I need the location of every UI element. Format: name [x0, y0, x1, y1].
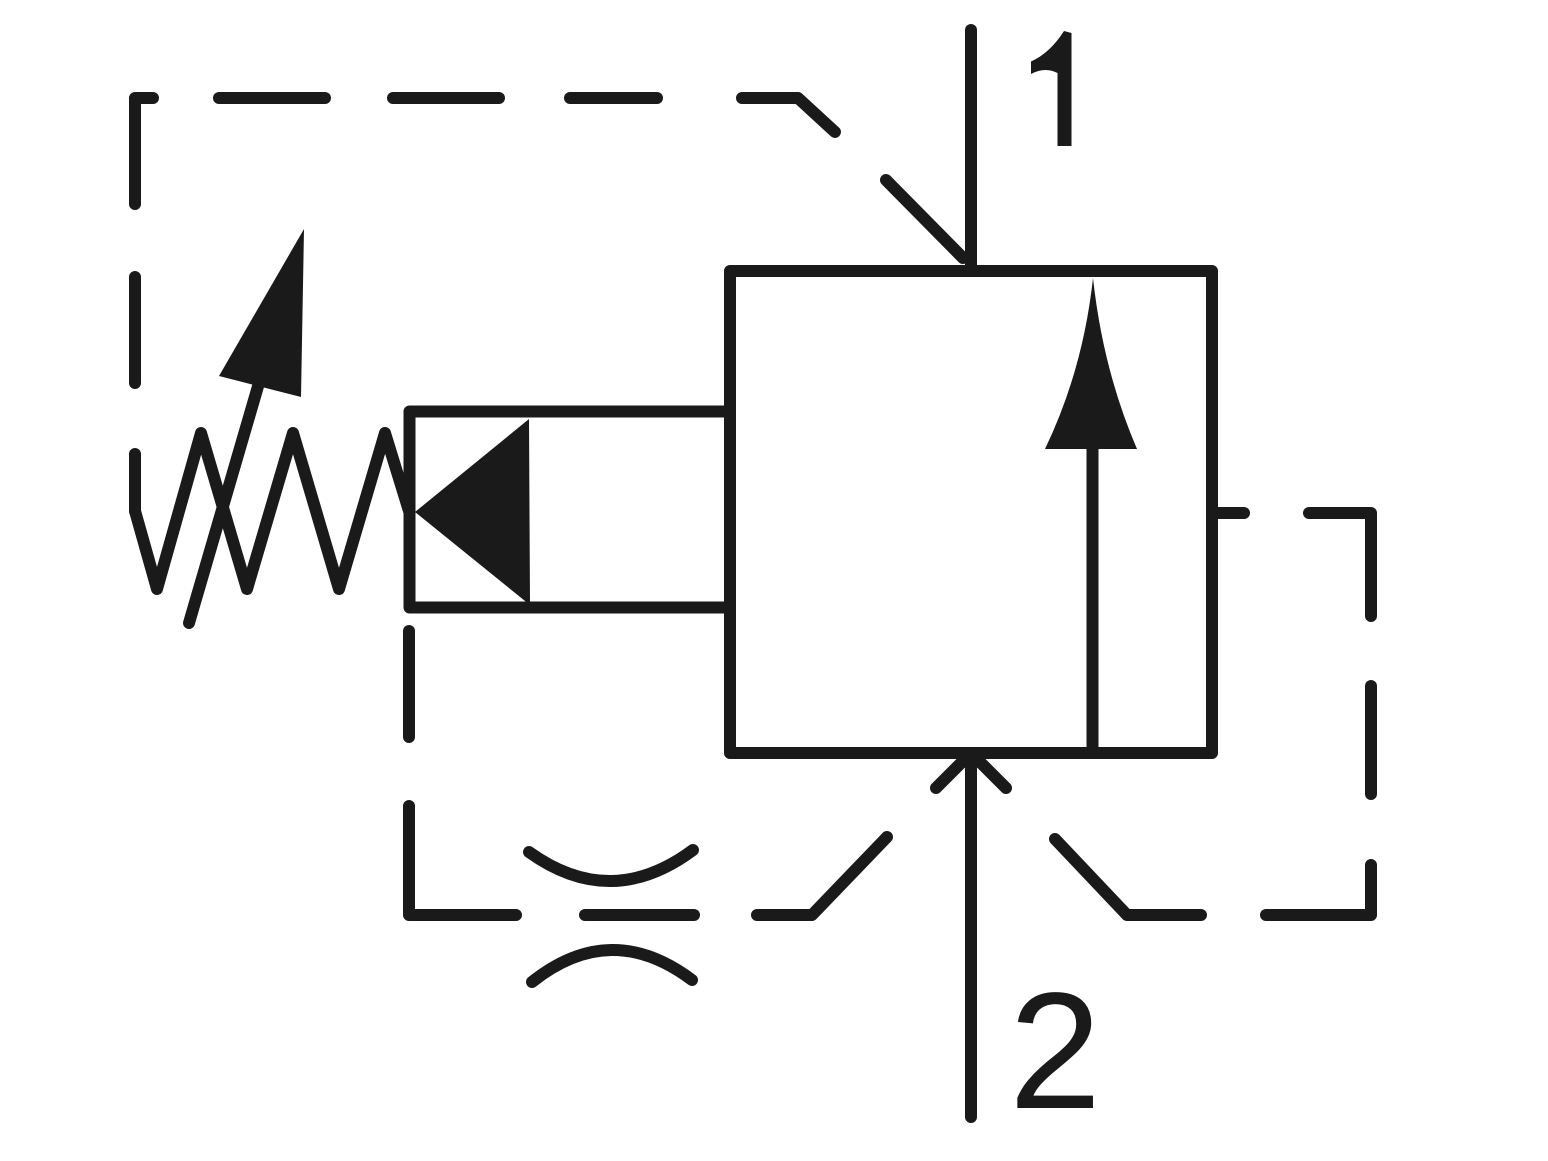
svg-text:2: 2	[1009, 959, 1101, 1144]
